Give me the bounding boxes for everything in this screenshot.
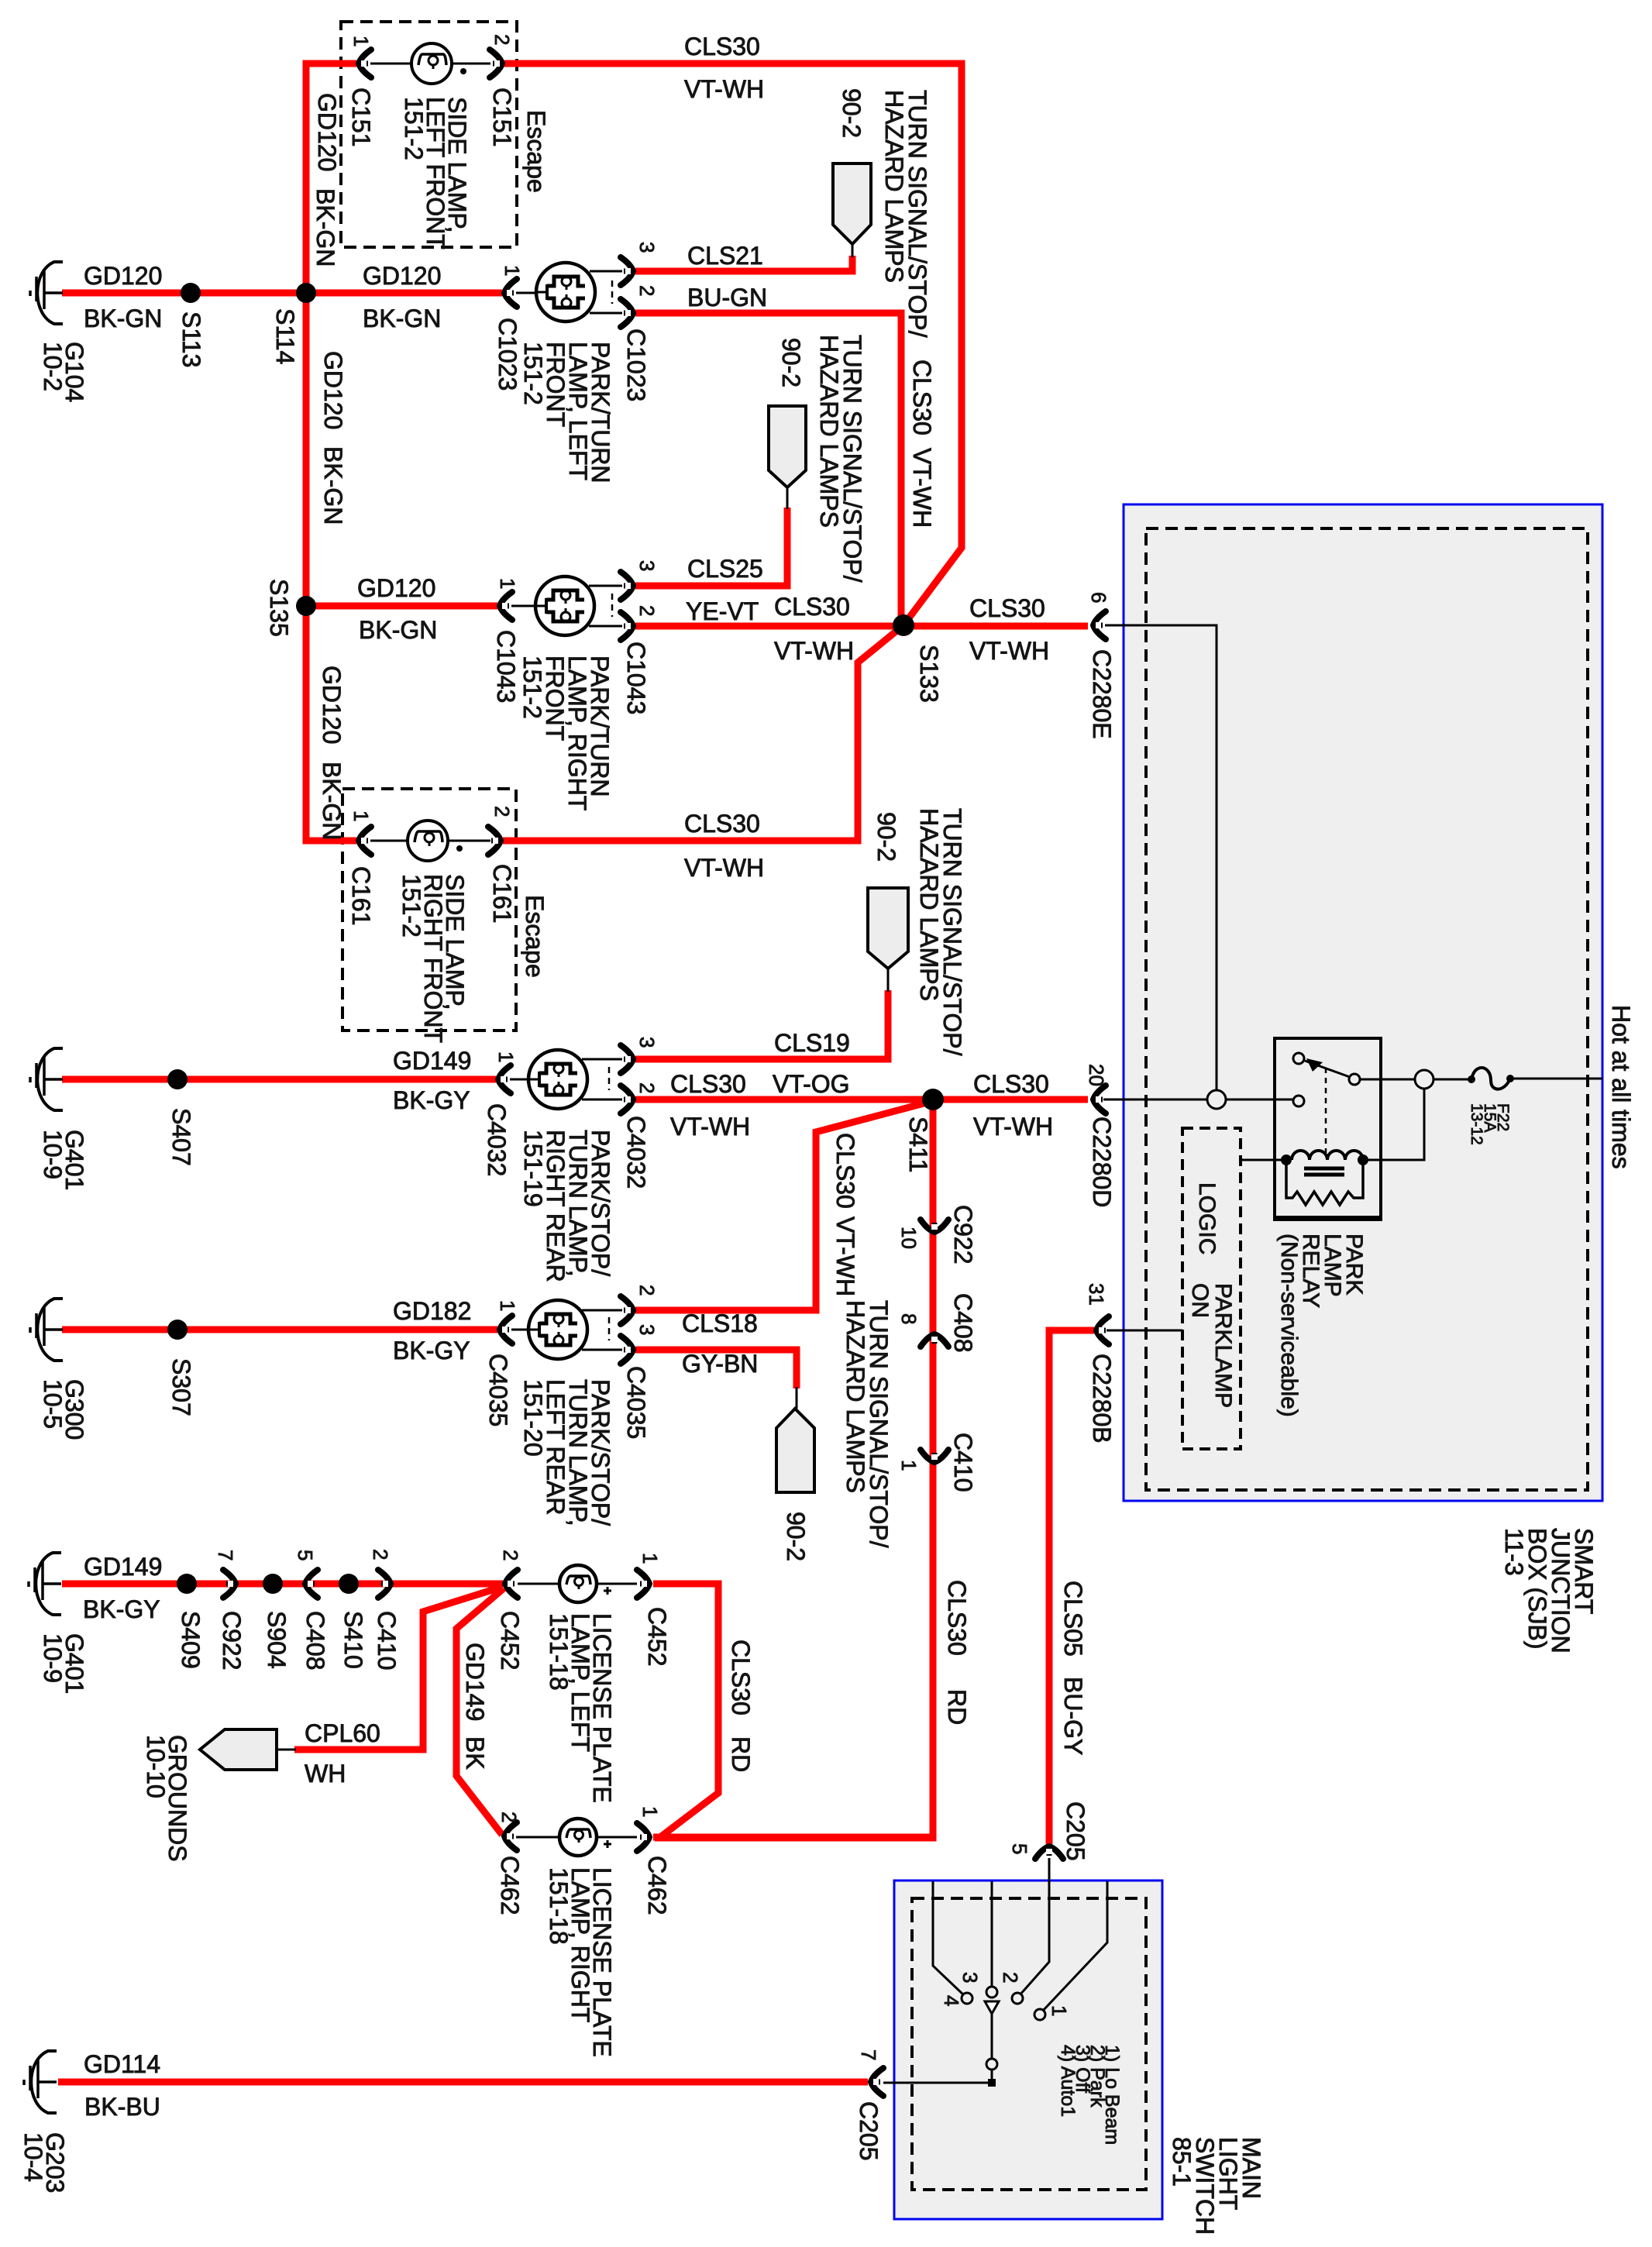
vertical wire label RD [943,1689,971,1725]
component label side lamp left front [400,97,471,249]
svg-text:GD120: GD120 [313,93,341,171]
svg-text:GD120: GD120 [318,666,346,744]
connector C1043 pin 3 arrow [621,572,635,600]
svg-text:BK-GY: BK-GY [83,1595,160,1623]
relay switch contact upper [1293,1053,1304,1064]
svg-text:GD120: GD120 [363,262,441,290]
svg-text:3: 3 [959,1972,982,1983]
wire YE-VT CLS30 from C1043 pin 2 through S133 to C2280E [635,623,1088,630]
dashed connector line C1023 [611,280,614,304]
svg-text:7: 7 [214,1550,237,1561]
hazard lamps block label [841,1300,893,1548]
svg-text:S135: S135 [265,579,293,637]
connector C1023 pin 3 arrow [621,257,635,285]
wire CLS30 RD from C462 pin 1 junction [653,1834,933,1841]
wire CLS30 VT-OG VT-WH from C4032 pin 2 through S411 to C2280D [635,1096,1088,1103]
relay linkage dashed [1325,1068,1327,1153]
wire CLS25 from C1043 pin 3 to hazard lamps connector [635,508,787,586]
svg-text:GD120: GD120 [319,351,347,429]
wire link C1043 pin1 to lamp [511,605,548,607]
splice S411 [922,1089,944,1110]
svg-text:2: 2 [635,285,659,296]
relay switch arm [1305,1061,1350,1077]
vertical wire label CLS30 [831,1133,859,1209]
svg-text:HAZARD LAMPS: HAZARD LAMPS [880,90,908,283]
svg-text:2: 2 [499,1550,522,1561]
switch output line to C205 pin 7 [883,2069,992,2083]
label C2280E [1088,649,1116,739]
svg-text:VT-WH: VT-WH [831,1216,859,1296]
component label park/turn lamp left front [519,342,614,483]
label PARKLAMP ON [1187,1283,1236,1408]
license plate lamp right [559,1819,611,1856]
label C2280D [1088,1117,1116,1207]
wire link hazard connector 90-2 third [887,969,890,992]
label 90-2 [872,812,900,862]
ground G104 [30,262,63,324]
svg-text:10-9: 10-9 [39,1633,67,1683]
switch pin label 3 [959,1972,982,1983]
pin number 5 [294,1550,317,1561]
pin number 20 [1085,1064,1108,1086]
label C408 [949,1293,977,1353]
svg-text:S113: S113 [177,311,205,367]
svg-text:CLS19: CLS19 [774,1029,850,1057]
wire link lamp to C1023 pin2 [590,312,622,315]
connector C2280B pin 31 arrow [1094,1316,1109,1344]
svg-text:C4032: C4032 [483,1103,511,1176]
pin number 5 [1008,1843,1031,1854]
svg-text:7: 7 [857,2049,880,2060]
svg-text:C151: C151 [347,88,375,147]
pin number 8 [897,1313,921,1324]
svg-text:CLS30: CLS30 [908,360,936,435]
svg-text:2: 2 [497,1812,521,1822]
side lamp left front dashed box [341,22,517,247]
relay switch contact common [1293,1096,1304,1106]
switch line from contact 1 to box edge [1042,1881,1107,2011]
connector C4035 pin 2 arrow [621,1296,635,1324]
pin number 1 [897,1460,921,1471]
svg-text:C1043: C1043 [492,630,520,703]
side lamp right front C161 [408,821,463,861]
pin number 2 [635,1285,659,1296]
splice label S114 [271,308,299,364]
svg-text:2: 2 [369,1549,392,1560]
svg-text:2: 2 [490,806,514,817]
ground G203 [24,2051,57,2113]
wire GD120 vertical S114 up to side lamp left front [306,64,356,293]
pin number 2 [490,34,514,45]
component label license plate lamp right [545,1867,616,2057]
svg-text:S133: S133 [915,645,943,703]
svg-text:C410: C410 [949,1433,977,1492]
off-page connector GROUNDS CPL60 [200,1729,277,1770]
wire CLS18 GY-BN from C4035 pin 3 to hazard lamps connector [635,1350,797,1388]
park/stop/turn lamp right rear C4032 [528,1050,587,1109]
label C922 [218,1611,246,1671]
svg-text:BK-GY: BK-GY [393,1337,470,1364]
svg-text:BK-GN: BK-GN [311,188,339,267]
svg-text:Escape: Escape [522,110,550,193]
connector C161 pin 2 arrow [488,827,503,855]
wire link C161 pin1 to side lamp [370,840,408,842]
svg-text:C922: C922 [949,1205,977,1265]
svg-text:S411: S411 [904,1117,932,1172]
svg-text:151-2: 151-2 [398,874,425,938]
svg-text:1: 1 [897,1460,921,1471]
svg-text:BK-GN: BK-GN [363,305,441,332]
off-page connector turn signal hazard lamps 90-2 bottom [776,1409,814,1492]
label C452 [643,1607,671,1667]
svg-text:C4035: C4035 [484,1354,512,1426]
wire link C4035 pin1 to lamp [511,1329,541,1331]
svg-text:GY-BN: GY-BN [682,1350,758,1378]
pin number 1 [494,1051,518,1062]
svg-text:3: 3 [635,1324,659,1335]
wire CLS30 RD from S411 down to C462 pin 1 [655,1099,933,1838]
label C4035 [622,1366,650,1439]
wire link C151 pin1 to side lamp [370,63,411,65]
svg-text:HAZARD LAMPS: HAZARD LAMPS [815,335,843,528]
park/turn lamp right front C1043 [535,576,594,635]
splice S410 [339,1574,359,1594]
svg-text:S114: S114 [271,308,299,364]
svg-text:C408: C408 [949,1293,977,1353]
svg-text:2: 2 [635,605,659,616]
svg-text:CLS30: CLS30 [831,1133,859,1209]
main light switch inner dashed boundary [912,1898,1146,2190]
svg-text:(Non-serviceable): (Non-serviceable) [1276,1234,1302,1417]
relay coil core bars [1304,1167,1344,1171]
connector C1023 pin 2 arrow [621,299,635,327]
label C151 [488,88,516,147]
vertical wire label CLS30 [943,1580,971,1656]
svg-text:10-4: 10-4 [19,2132,47,2182]
wire CLS19 from C4032 pin 3 to hazard lamps connector [635,990,888,1059]
wire CPL60 WH from grounds connector to C452 [294,1587,502,1750]
wire link grounds connector CPL60 [277,1749,296,1751]
svg-text:2: 2 [999,1972,1022,1983]
splice S904 [263,1574,283,1594]
svg-text:CLS25: CLS25 [687,555,763,583]
vertical wire label BK [461,1736,489,1770]
label C4032 [622,1116,650,1189]
connector C2280D pin 20 arrow [1091,1086,1106,1113]
svg-text:PARKLAMP: PARKLAMP [1210,1283,1236,1408]
pin number 7 [214,1550,237,1561]
terminal bullet relay to fuse [1415,1070,1433,1089]
svg-text:GD149: GD149 [393,1047,471,1075]
wire link C1023 pin1 to lamp [516,292,549,294]
fuse label F22 15A 13-12 [1468,1103,1512,1145]
label C1023 [622,329,650,401]
svg-text:CLS05: CLS05 [1059,1581,1087,1657]
svg-text:C1023: C1023 [622,329,650,401]
vertical wire label VT-WH [831,1216,859,1296]
license plate lamp left [559,1565,611,1602]
wire link lamp to C4032 pin3 [582,1058,622,1061]
connector C4035 pin 3 arrow [621,1336,635,1364]
wire link side lamp to C161 pin2 [447,840,490,842]
svg-text:1: 1 [1048,2005,1071,2016]
label C410 [949,1433,977,1492]
wire link C462 pin2 to license lamp right [516,1836,559,1839]
svg-text:5: 5 [294,1550,317,1561]
svg-text:1: 1 [501,265,524,276]
pin number 2 [369,1549,392,1560]
svg-text:CLS21: CLS21 [687,242,763,270]
wire GD149 BK from C452 pin 2 to C462 pin 2 [456,1588,504,1835]
label C4035 [484,1354,512,1426]
svg-text:10: 10 [897,1227,921,1249]
label C4032 [483,1103,511,1176]
pin number 10 [897,1227,921,1249]
label C151 [347,88,375,147]
connector C922 inline arrow [223,1570,238,1598]
svg-text:C4035: C4035 [622,1366,650,1439]
wire link C4032 pin1 to lamp [510,1079,541,1081]
vertical wire label GD120 [318,666,346,744]
svg-text:VT-WH: VT-WH [670,1113,750,1141]
switch contact 1 [1034,2009,1045,2020]
svg-text:HAZARD LAMPS: HAZARD LAMPS [841,1300,869,1493]
switch wiper contact [986,1987,997,1998]
switch wiper to output contact [991,2013,993,2059]
splice label S407 [167,1108,195,1166]
hazard lamps block label [815,335,866,583]
svg-text:BK-GN: BK-GN [84,305,162,332]
main light switch component label [1168,2137,1265,2235]
svg-text:GD149: GD149 [84,1553,162,1581]
pin number 2 [490,806,514,817]
svg-text:C151: C151 [488,88,516,147]
vertical wire label RD [727,1736,755,1772]
svg-text:1: 1 [638,1553,662,1564]
svg-text:90-2: 90-2 [838,88,866,138]
pin number 1 [349,36,373,46]
wire link lamp to C4035 pin3 [582,1349,622,1351]
junction square on switch output [988,2079,996,2087]
svg-text:VT-WH: VT-WH [908,448,936,528]
ground G300 [30,1299,63,1361]
wire GD120 vertical S114 to S135 [303,293,310,606]
vertical wire label GD149 [461,1643,489,1721]
svg-text:CLS30: CLS30 [969,594,1045,622]
svg-text:CLS30: CLS30 [774,593,850,621]
wire GD120 BK-GN ground run G104 to C1023 pin 1 [62,290,502,297]
wire GD149 BK-GY ground run G401 to C4032 pin 1 [62,1076,496,1083]
svg-text:1: 1 [349,810,373,821]
svg-text:151-2: 151-2 [400,97,428,160]
connector C408 inline arrow [303,1570,318,1598]
wire fuse to hot at all times feed [1512,1078,1602,1080]
vertical wire label BK-GN [319,446,347,525]
svg-text:BK-GN: BK-GN [319,446,347,525]
switch positions label [1057,2045,1123,2145]
connector C452 pin 2 arrow [503,1570,518,1598]
switch pin label 4 [940,1995,963,2006]
ground label G401 [39,1633,88,1694]
svg-text:YE-VT: YE-VT [686,597,759,625]
svg-text:WH: WH [305,1760,346,1788]
svg-text:90-2: 90-2 [872,812,900,862]
wire GD120 S135 to C1043 pin 1 [306,603,497,610]
dashed connector line C1043 [611,594,614,617]
wire GD182 BK-GY ground run G300 to C4035 pin 1 [62,1327,497,1333]
label C922 [949,1205,977,1265]
label Hot at all times [1607,1005,1635,1169]
ground label G203 [19,2132,69,2193]
pin number 3 [635,1037,659,1048]
svg-text:S407: S407 [167,1108,195,1166]
component label park/turn lamp right front [518,656,614,810]
svg-text:10-5: 10-5 [39,1379,67,1429]
svg-text:VT-OG: VT-OG [773,1070,850,1098]
wire link hazard connector 90-2 lower [796,1387,798,1409]
wire CLS30 VT-WH from S411 to C4035 pin 2 [635,1102,930,1310]
svg-text:GD149: GD149 [461,1643,489,1721]
wire C2280D pin 20 into SJB to relay common [1103,1099,1295,1101]
vertical wire label CLS30 [908,360,936,435]
pin number 2 [635,605,659,616]
vertical wire label CLS30 [727,1640,755,1715]
grounds off-page label [142,1735,191,1862]
label C410 [373,1611,401,1671]
wire CLS21 from C1023 pin 3 to hazard lamps connector [635,256,852,271]
switch pin label 2 [999,1972,1022,1983]
splice label S409 [177,1611,205,1669]
wire link lamp to C1043 pin3 [589,585,622,587]
connector C4032 pin 3 arrow [621,1045,635,1073]
svg-text:4) Auto1: 4) Auto1 [1057,2045,1079,2117]
pin number 31 [1085,1283,1108,1306]
pin number 1 [496,1300,519,1311]
svg-text:3: 3 [635,1037,659,1048]
pin number 3 [635,242,659,253]
svg-text:LOGIC: LOGIC [1194,1182,1220,1254]
off-page connector turn signal hazard lamps 90-2 top [833,163,871,244]
relay component label [1276,1234,1367,1417]
svg-text:1: 1 [494,1051,518,1062]
svg-text:6: 6 [1087,592,1110,603]
svg-text:CLS18: CLS18 [682,1309,758,1337]
wire CLS30 VT-WH from C151 pin 2 to S133 [504,64,962,625]
connector C462 pin 1 arrow [637,1823,652,1851]
wire GD114 BK-BU ground run G203 to C205 pin 7 [58,2079,868,2086]
ground G401 rear right [30,1048,63,1110]
switch wiper triangle [985,2001,999,2014]
splice S113 [181,283,201,303]
switch contact 3-4 [962,1993,972,2004]
svg-text:2: 2 [635,1082,659,1093]
connector C4032 pin 2 arrow [621,1086,635,1113]
pin number 1 [496,578,519,589]
vertical wire label BK-GN [318,762,346,840]
connector C1023 pin 1 arrow [502,279,517,307]
svg-text:31: 31 [1085,1283,1108,1306]
park lamp relay box [1275,1038,1381,1220]
svg-text:CLS30: CLS30 [973,1070,1049,1098]
svg-text:Escape: Escape [521,895,549,978]
svg-text:20: 20 [1085,1064,1108,1086]
wire CLS30 RD from C452 pin 1 down to C462 pin 1 [653,1584,718,1837]
splice label S411 [904,1117,932,1172]
label C462 [643,1856,671,1915]
svg-text:2: 2 [490,34,514,45]
svg-text:C1043: C1043 [622,642,650,714]
svg-text:BK-BU: BK-BU [84,2093,160,2121]
svg-text:C410: C410 [373,1611,401,1671]
wire CLS05 BU-GY from C2280B down to main light switch C205 pin 5 [1049,1330,1094,1844]
label LOGIC [1194,1182,1220,1254]
svg-text:3: 3 [635,560,659,571]
svg-text:BK-GY: BK-GY [393,1086,470,1114]
component label park/stop/turn lamp left rear [519,1379,614,1526]
svg-text:GD114: GD114 [84,2050,160,2078]
splice label S135 [265,579,293,637]
svg-text:1: 1 [496,1300,519,1311]
connector C462 pin 2 arrow [502,1822,517,1850]
relay resistor [1286,1160,1363,1205]
svg-text:BK-GN: BK-GN [359,616,437,644]
svg-text:S409: S409 [177,1611,205,1669]
svg-text:151-2: 151-2 [518,656,546,719]
switch pin label 1 [1048,2005,1071,2016]
fuse F22 element [1468,1068,1514,1089]
svg-text:C205: C205 [1062,1801,1089,1861]
svg-text:1: 1 [496,578,519,589]
smart junction box (SJB) outline [1124,504,1602,1501]
pin number 1 [638,1806,662,1817]
terminal bullet on relay feed [1207,1090,1226,1109]
svg-text:CLS30: CLS30 [684,810,760,838]
LOGIC dashed box [1182,1128,1241,1449]
park/turn lamp left front C1023 [536,263,595,322]
svg-text:8: 8 [897,1313,921,1324]
splice S407 [167,1069,188,1089]
pin number 7 [857,2049,880,2060]
connector C205 pin 7 arrow [869,2068,883,2096]
svg-text:C4032: C4032 [622,1116,650,1189]
splice label S410 [339,1611,367,1669]
wire link C452 pin2 to license lamp left [518,1583,559,1585]
wire link hazard connector 90-2 second [786,487,789,509]
svg-text:VT-WH: VT-WH [774,637,854,665]
switch wiper line to box edge [991,1881,993,1987]
label C205 [855,2101,883,2161]
svg-text:C1023: C1023 [494,318,521,391]
label 90-2 [782,1512,810,1561]
splice S135 [296,596,316,616]
svg-text:ON: ON [1187,1283,1213,1318]
connector C452 pin 1 arrow [637,1570,652,1598]
switch contact 2 [1012,1993,1023,2004]
pin number 6 [1087,592,1110,603]
main light switch box outline [894,1881,1162,2219]
svg-text:1: 1 [638,1806,662,1817]
svg-text:GD120: GD120 [84,262,162,290]
splice S307 [167,1320,188,1340]
splice S114 [296,283,316,303]
off-page connector turn signal hazard lamps 90-2 third [868,888,908,969]
svg-text:RD: RD [943,1689,971,1725]
svg-text:C452: C452 [643,1607,671,1667]
svg-text:S904: S904 [263,1611,291,1669]
pin number 1 [501,265,524,276]
ground G401 license [29,1553,61,1615]
svg-text:S410: S410 [339,1611,367,1669]
